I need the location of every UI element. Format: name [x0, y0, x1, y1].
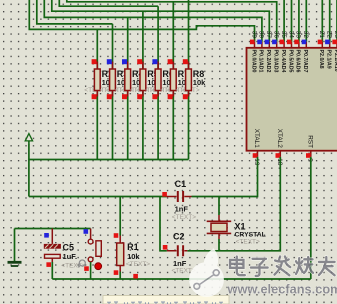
svg-text:10k: 10k [193, 78, 206, 87]
svg-text:P2.1/A9: P2.1/A9 [326, 50, 332, 69]
wire resistor column 1 [96, 29, 98, 159]
svg-text:C2: C2 [173, 231, 185, 241]
wire C5 bottom to bus [51, 262, 53, 279]
resistor R5 [130, 59, 161, 99]
resistor R1 [114, 233, 151, 275]
svg-text:19: 19 [253, 158, 260, 166]
wire net P0.1 (top edge entry to pin P0.1) [44, 0, 262, 42]
wire P0.7 to top edge [305, 0, 307, 42]
wire node line to C1 [29, 196, 167, 198]
svg-text:P0.5/AD5: P0.5/AD5 [287, 50, 293, 73]
op IC U1 8051 body [247, 48, 337, 151]
wire resistor column 4 [142, 11, 144, 159]
pin 38 P0.1/AD1 [257, 31, 264, 73]
pin 34 P0.5/AD5 [287, 31, 294, 73]
wire P0.5 to top edge [291, 0, 293, 42]
node junction marker on bus [133, 274, 138, 279]
svg-text:35: 35 [280, 31, 287, 39]
svg-text:P0.7/AD7: P0.7/AD7 [302, 50, 308, 73]
pin 23 P2.2/A10 [332, 31, 337, 72]
resistor R8 [176, 59, 207, 99]
switch push button [78, 229, 102, 280]
wire net P0.3 (top edge entry to pin P0.3) [67, 0, 277, 42]
resistor R6 [145, 59, 176, 99]
wire crystal top lead [218, 197, 220, 216]
wire C2 left feed [160, 197, 167, 251]
wire resistor column 2 [112, 24, 114, 160]
crystal X1 [207, 215, 266, 246]
svg-text:<TEXT>: <TEXT> [126, 261, 150, 268]
svg-text:1nF: 1nF [173, 259, 187, 268]
capacitor C1 [162, 179, 196, 221]
svg-text:P0.4/AD4: P0.4/AD4 [280, 50, 286, 73]
wire net P0.0 (top edge entry, jog, to pin P0.0) [29, 0, 254, 42]
wire R1 top feed [119, 197, 121, 236]
pin 9 RST [306, 135, 313, 162]
svg-text:<TEXT>: <TEXT> [172, 214, 196, 221]
watermark logo [189, 248, 224, 297]
pin 22 P2.1/A9 [325, 31, 332, 69]
svg-text:1nF: 1nF [175, 204, 189, 213]
pin 39 P0.0/AD0 [250, 31, 257, 73]
svg-text:<TEXT>: <TEXT> [236, 239, 260, 246]
wire XTAL2 down [187, 157, 280, 251]
svg-text:37: 37 [265, 31, 272, 39]
svg-text:P0.1/AD1: P0.1/AD1 [258, 50, 264, 73]
wire R1 bottom to bus [119, 272, 121, 280]
svg-text:9: 9 [306, 158, 313, 162]
resistor R7 [160, 59, 191, 99]
capacitor C2 [163, 231, 196, 274]
svg-text:P2.0/A8: P2.0/A8 [318, 50, 324, 69]
wire crystal bottom lead [218, 239, 220, 251]
svg-text:1uF.: 1uF. [63, 252, 78, 261]
wire P0.6 to top edge [298, 0, 300, 42]
svg-text:www.elecfans.com: www.elecfans.com [227, 282, 337, 297]
pin 18 XTAL2 [276, 129, 283, 166]
svg-text:CRYSTAL: CRYSTAL [235, 232, 266, 239]
caption box [103, 296, 229, 304]
watermark text dianzifashaoyou [230, 257, 335, 276]
pin 19 XTAL1 [253, 129, 260, 166]
svg-text:P0.3/AD3: P0.3/AD3 [273, 50, 279, 73]
wire ground rail [15, 228, 91, 230]
svg-text:R1: R1 [127, 242, 139, 252]
wire resistor bottom bus [29, 159, 189, 161]
wire P2.1 to top edge [329, 0, 331, 42]
svg-text:XTAL1: XTAL1 [253, 129, 260, 149]
svg-text:P0.6/AD6: P0.6/AD6 [295, 50, 301, 73]
ground symbol [8, 262, 22, 266]
svg-text:10k: 10k [127, 252, 140, 261]
wire RST down to reset bus [310, 157, 312, 279]
resistor R4 [115, 59, 146, 99]
capacitor C5 (electrolytic) [44, 229, 86, 270]
svg-text:38: 38 [258, 31, 265, 39]
wire XTAL1 to crystal top node [192, 157, 258, 197]
svg-text:RST: RST [306, 135, 313, 148]
wire power rail vertical [28, 145, 30, 197]
watermark url [227, 282, 337, 297]
svg-text:P0.0/AD0: P0.0/AD0 [250, 50, 256, 73]
wire net R6 top (top edge entry to R6 column) [59, 0, 158, 6]
wire resistor column 3 [127, 17, 129, 159]
svg-text:P0.2/AD2: P0.2/AD2 [265, 50, 271, 73]
wire ground stub [14, 229, 16, 262]
svg-text:34: 34 [287, 31, 294, 39]
wire resistor column 5 [157, 6, 159, 159]
wire P2.0 to top edge [321, 0, 323, 42]
svg-text:23: 23 [333, 31, 337, 39]
pin 32 P0.7/AD7 [302, 31, 309, 73]
svg-text:21: 21 [318, 31, 325, 39]
svg-text:32: 32 [302, 31, 309, 39]
wire resistor column 6 [172, 2, 174, 160]
svg-text:P2.2/A10: P2.2/A10 [333, 50, 337, 72]
pin 21 P2.0/A8 [318, 31, 325, 69]
svg-text:39: 39 [250, 31, 257, 39]
resistor R2 [84, 59, 115, 99]
svg-text:C1: C1 [175, 179, 187, 189]
pin 33 P0.6/AD6 [294, 31, 301, 73]
svg-text:X1: X1 [235, 221, 246, 231]
wire P2.2 to top edge [336, 0, 337, 42]
pin 37 P0.2/AD2 [265, 31, 272, 73]
pin 36 P0.3/AD3 [272, 31, 279, 73]
wire reset bottom bus [52, 278, 311, 280]
svg-text:XTAL2: XTAL2 [276, 129, 283, 149]
resistor R3 [100, 59, 131, 99]
wire net R2 top (top edge entry to R2 column) [37, 0, 113, 24]
pin 35 P0.4/AD4 [280, 31, 287, 73]
wire resistor column 7 [188, 0, 190, 160]
wire P0.4 to top edge [283, 0, 285, 42]
power VCC arrow [25, 134, 32, 145]
svg-text:22: 22 [326, 31, 333, 39]
wire net P0.2 (top edge entry to pin P0.2) [52, 0, 269, 42]
svg-text:18: 18 [276, 158, 283, 166]
svg-text:36: 36 [273, 31, 280, 39]
svg-text:33: 33 [295, 31, 302, 39]
